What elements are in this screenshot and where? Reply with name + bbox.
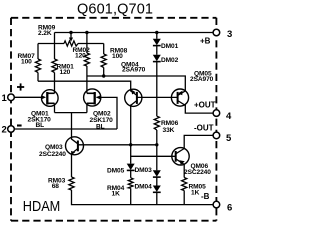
svg-text:DM04: DM04 — [135, 184, 153, 191]
resistor RM07 — [35, 59, 40, 73]
wire QM01 source — [54, 103, 56, 112]
resistor RM09 — [64, 41, 78, 46]
svg-text:120: 120 — [75, 52, 86, 59]
wire RM08 top corner — [103, 44, 105, 55]
diode DM02 — [153, 55, 161, 62]
svg-text:33K: 33K — [163, 127, 175, 134]
wire RM06 bottom to DM03 anode — [156, 130, 158, 170]
wire DM05 to RM04 — [130, 170, 132, 178]
node junction on +B bus at RM09 tap — [69, 31, 72, 34]
pin 1 — [8, 94, 15, 101]
transistor QM05 2SA970 — [171, 89, 188, 106]
pin 4 — [213, 110, 220, 117]
pin 2 — [8, 126, 15, 133]
svg-text:+B: +B — [200, 37, 211, 46]
wire QM04 base to QM05 base — [137, 96, 178, 98]
svg-text:4: 4 — [226, 111, 232, 122]
plus sign at pin 1 — [17, 83, 24, 90]
wire DM02 cathode to RM06 — [156, 61, 158, 116]
resistor RM08 — [101, 54, 106, 68]
pin 5 — [213, 132, 220, 139]
svg-text:3: 3 — [227, 29, 232, 40]
svg-text:BL: BL — [36, 122, 45, 129]
wire RM09 row y=43.5 — [38, 43, 64, 45]
diode DM05 — [127, 164, 135, 171]
arrowheads — [41, 38, 100, 100]
svg-text:2SA970: 2SA970 — [122, 67, 146, 74]
svg-text:100: 100 — [112, 53, 123, 60]
resistor RM05 — [182, 178, 187, 191]
wire emitter bus y=76 — [87, 76, 185, 92]
wire sources tap to QM03 collector — [71, 113, 73, 138]
svg-text:Q601,Q701: Q601,Q701 — [77, 2, 153, 18]
transistor QM03 2SC2240 — [66, 137, 84, 155]
wire RM08 bottom — [103, 68, 105, 77]
wire RM01 bottom to QM01 drain — [54, 73, 56, 94]
wire QM03 emitter to RM03 — [71, 154, 73, 177]
svg-text:DM05: DM05 — [107, 168, 125, 175]
wire bus tap arrow at RM09 — [70, 33, 72, 39]
minus sign at pin 2 — [17, 124, 22, 126]
dashed module border — [11, 18, 216, 221]
pin 6 — [213, 201, 220, 208]
wire DM01 cathode to DM02 anode — [156, 45, 158, 54]
diode DM04 — [153, 186, 161, 193]
wire RM02 bottom to QM02 drain — [86, 66, 88, 93]
wire RM03 bottom corner to rail — [72, 190, 214, 205]
wire QM02 gate feedback — [97, 97, 118, 129]
wire QM03 base row — [78, 144, 157, 146]
svg-text:HDAM: HDAM — [23, 199, 61, 215]
wire RM09 to RM02/RM08 branch — [78, 43, 104, 45]
wire QM05 collector to +OUT — [185, 104, 213, 113]
arrow QM01 gate — [41, 95, 46, 99]
svg-text:1: 1 — [2, 93, 8, 104]
resistor RM04 — [128, 178, 133, 189]
svg-text:-B: -B — [201, 192, 210, 201]
svg-text:+OUT: +OUT — [194, 101, 216, 110]
svg-text:68: 68 — [52, 183, 60, 190]
node junction RM08 bottom on emitter bus — [102, 74, 105, 77]
wire QM02 source — [86, 103, 88, 112]
svg-text:BL: BL — [96, 124, 105, 131]
svg-text:DM01: DM01 — [161, 43, 179, 50]
svg-text:-OUT: -OUT — [194, 123, 214, 132]
transistor QM01 2SK170 JFET — [42, 90, 59, 107]
wire DM04 cathode to -B rail — [156, 192, 158, 205]
transistor QM02 2SK170 JFET — [84, 89, 101, 106]
svg-text:DM03: DM03 — [135, 167, 153, 174]
wire QM04 collector down — [130, 105, 132, 164]
svg-text:DM02: DM02 — [161, 57, 179, 64]
wire vertical x=86.9 bus to RM02 — [86, 33, 88, 54]
wire DM03 cathode to DM04 anode — [156, 177, 158, 186]
svg-text:6: 6 — [227, 202, 232, 213]
svg-text:2SA970: 2SA970 — [190, 76, 214, 83]
svg-text:5: 5 — [226, 133, 232, 144]
wire input pin1 to QM01 gate — [14, 96, 42, 98]
resistor RM02 — [84, 53, 89, 66]
wire sources join — [55, 112, 87, 114]
resistor RM06 — [154, 116, 159, 130]
wire bus left corner down to RM01 top — [54, 33, 56, 60]
transistor QM04 2SA970 — [125, 89, 142, 106]
svg-text:100: 100 — [21, 59, 32, 66]
node junction on +B bus at RM02 branch — [85, 31, 88, 34]
wire RM05 bottom to rail — [183, 191, 185, 205]
svg-text:120: 120 — [60, 69, 71, 76]
svg-text:2.2K: 2.2K — [38, 30, 52, 37]
transistor QM06 2SC2240 — [172, 148, 189, 165]
svg-text:2SC2240: 2SC2240 — [39, 151, 66, 158]
pin 3 — [213, 29, 220, 36]
svg-text:2SC2240: 2SC2240 — [184, 169, 211, 176]
diode DM01 — [153, 39, 161, 46]
wire RM04 bottom to rail — [130, 188, 132, 204]
wire bus to DM01 anode — [156, 33, 158, 39]
node junction on +B bus at DM01 branch — [155, 31, 158, 34]
svg-text:RM06: RM06 — [161, 120, 179, 127]
wire QM06 collector to -OUT — [184, 135, 213, 148]
arrow tap into RM09 — [69, 38, 73, 42]
resistor RM03 — [69, 177, 74, 190]
wire corner down to RM07 — [37, 44, 39, 60]
wire +B bus — [55, 32, 214, 34]
diode DM03 — [153, 170, 161, 177]
resistor RM01 — [52, 59, 57, 73]
wire RM07 bottom — [37, 73, 39, 82]
svg-text:2: 2 — [2, 125, 7, 136]
node junction QM04 collector on QM03 base row — [129, 143, 132, 146]
wire QM06 base — [131, 155, 176, 157]
wire input pin2 — [14, 128, 117, 130]
wire QM06 emitter to RM05 — [183, 164, 185, 178]
wire QM01 drain node to QM04 emitter — [38, 81, 131, 91]
svg-text:1K: 1K — [191, 190, 200, 197]
svg-text:1K: 1K — [112, 191, 121, 198]
node junction diode chain on QM03 base row — [155, 143, 158, 146]
arrow QM02 gate — [96, 95, 101, 99]
